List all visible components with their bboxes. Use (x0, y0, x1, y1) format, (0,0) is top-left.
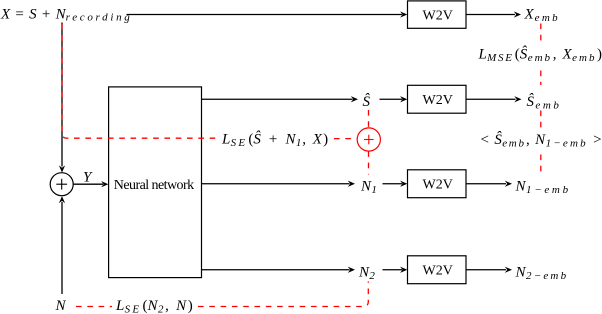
wire N1 to W2V-3 (383, 183, 403, 185)
wire NN to S-hat (202, 98, 353, 100)
wire N2 to W2V-4 (383, 269, 403, 271)
box Neural network (109, 87, 202, 278)
svg-text:N1−emb: N1−emb (515, 178, 571, 196)
box W2V U2 (408, 85, 467, 113)
svg-text:Neural network: Neural network (114, 178, 194, 193)
wire W2V-3 to N1_emb (466, 183, 506, 185)
svg-text:N2: N2 (358, 264, 375, 282)
wire W2V-4 to N2_emb (466, 269, 506, 271)
svg-text:Y: Y (83, 169, 93, 185)
red dashed label to red adder (334, 138, 357, 140)
wire NN to N2 (202, 269, 350, 271)
wire X to W2V-1 (127, 14, 403, 16)
red dashed SE loss bottom link (76, 282, 368, 307)
box W2V U4 (408, 256, 467, 284)
red dashed link red adder to N1 (368, 151, 370, 174)
svg-text:Ŝ: Ŝ (363, 93, 371, 110)
svg-text:LSE(Ŝ + N1, X): LSE(Ŝ + N1, X) (221, 130, 328, 149)
wire S-hat to W2V-2 (380, 98, 403, 100)
svg-text:X = S + Nrecording: X = S + Nrecording (0, 6, 133, 23)
svg-text:Xemb: Xemb (524, 6, 560, 24)
svg-text:LMSE(Ŝemb, Xemb): LMSE(Ŝemb, Xemb) (478, 46, 602, 65)
wire NN to N1 (202, 183, 350, 185)
wire W2V-2 to S-hat_emb (466, 98, 516, 100)
svg-text:< Ŝemb, N1−emb >: < Ŝemb, N1−emb > (481, 131, 602, 150)
svg-text:W2V: W2V (423, 263, 453, 278)
svg-text:W2V: W2V (423, 177, 453, 192)
box W2V U3 (408, 170, 467, 198)
svg-text:Ŝemb: Ŝemb (527, 93, 562, 112)
adder node red circle (357, 128, 380, 151)
svg-text:W2V: W2V (423, 8, 453, 23)
adder node black circle (50, 173, 73, 196)
red dashed loss link X to label (over NN box) (62, 24, 218, 138)
wire Y adder to NN (73, 183, 103, 185)
wire N up to adder (61, 202, 63, 294)
svg-text:W2V: W2V (423, 93, 453, 108)
wire W2V-1 to X_emb (466, 14, 515, 16)
box W2V U1 (408, 1, 467, 28)
wire X branch down to adder (61, 23, 63, 167)
svg-text:N: N (55, 298, 67, 314)
red dashed link S-hat to red adder (368, 110, 370, 128)
svg-text:N2−emb: N2−emb (515, 264, 569, 282)
svg-text:N1: N1 (360, 178, 377, 196)
red dashed MSE loss column (540, 24, 542, 172)
svg-text:LSE(N2, N): LSE(N2, N) (115, 298, 193, 314)
